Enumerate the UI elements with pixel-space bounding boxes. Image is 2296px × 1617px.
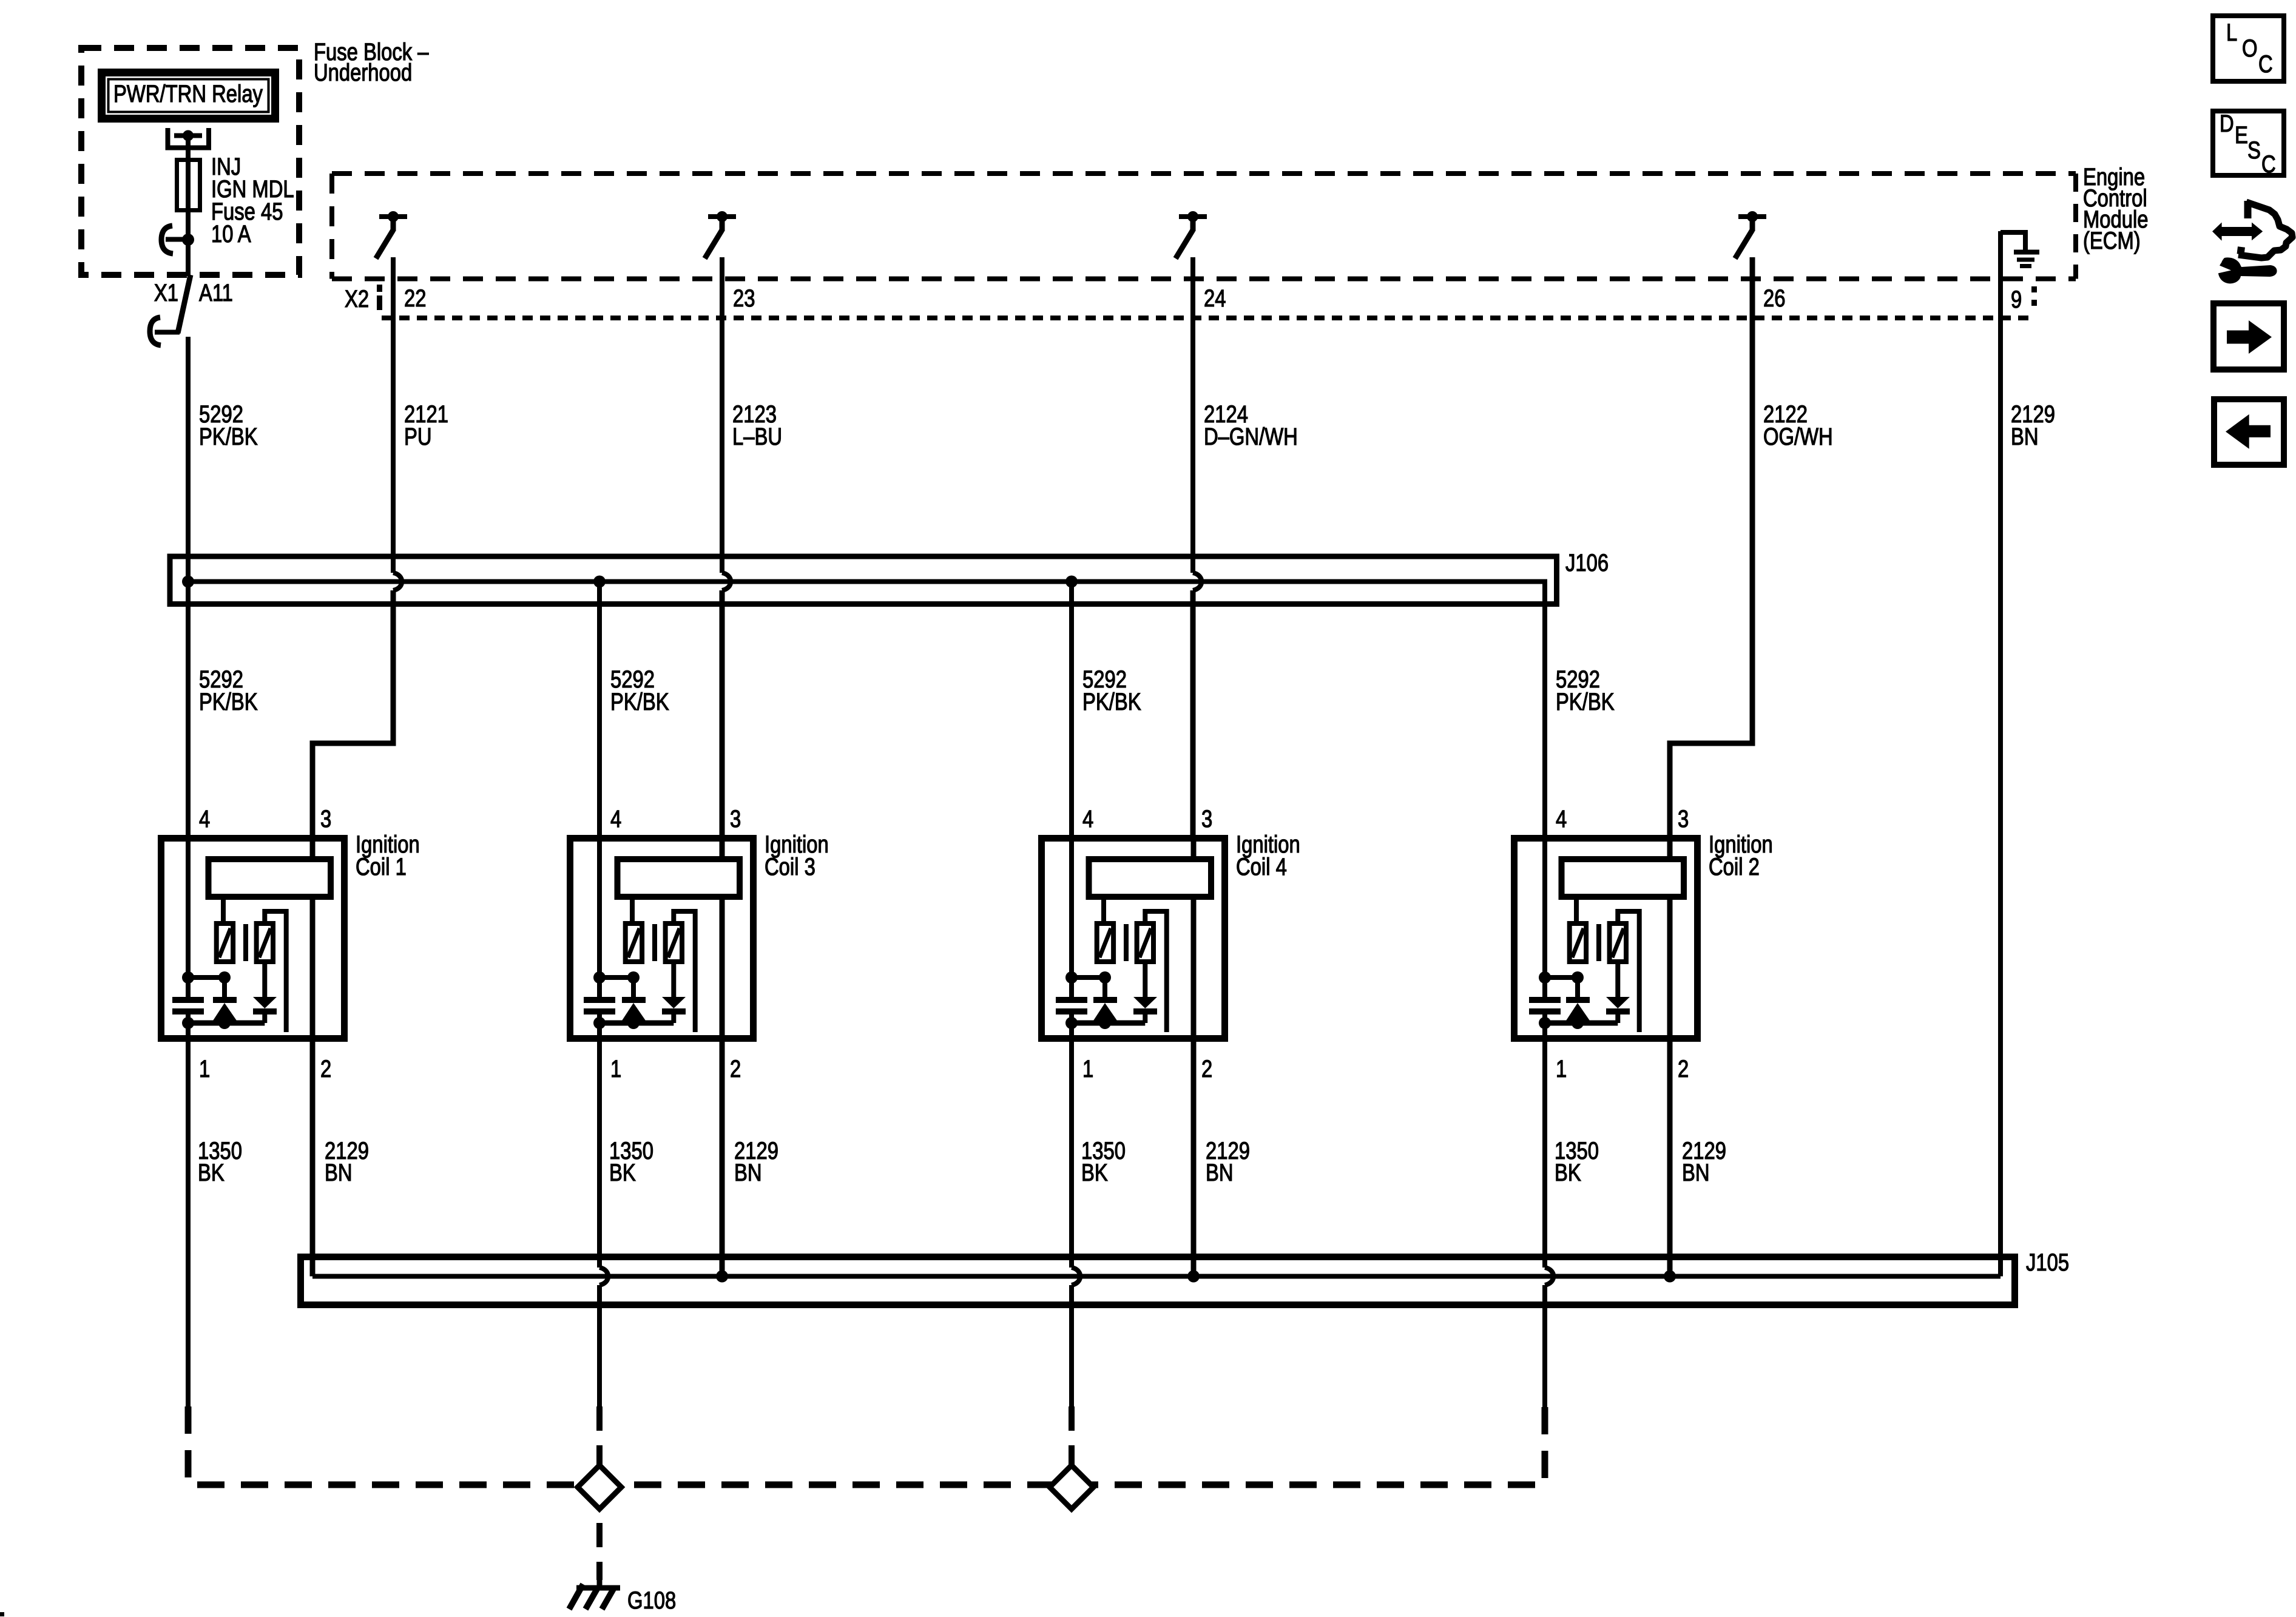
coil 3 pin 1 wire 1350 down (597, 1023, 602, 1042)
ground run dashed: coil 4 leg (1069, 1406, 1075, 1485)
svg-text:D–GN/WH: D–GN/WH (1204, 423, 1298, 450)
svg-text:D: D (2220, 110, 2234, 137)
coil 2 core bar (1596, 924, 1601, 961)
coil 3 left winding (626, 923, 642, 962)
coil 1 winding stem (221, 897, 226, 923)
wire 1350 coil 1 pin 1 down (left of J105) (186, 1042, 191, 1408)
coil 1 left winding (217, 923, 233, 962)
wire label 2129 BN coil 2 (1682, 1137, 1726, 1186)
svg-text:BK: BK (1081, 1159, 1108, 1186)
coil 1 right winding (257, 923, 273, 962)
icon DESC box (2213, 110, 2284, 178)
coil 1 junction link (182, 971, 231, 984)
coil 3 pin 2 wire 2129 down to J105 (720, 897, 725, 1277)
coil 2 primary winding box (1562, 859, 1684, 897)
svg-text:4: 4 (610, 805, 621, 832)
svg-text:Coil 2: Coil 2 (1709, 853, 1760, 880)
wire label 1350 BK coil 4 (1081, 1137, 1126, 1186)
svg-text:2: 2 (320, 1055, 331, 1082)
wire 2124 D-GN/WH pin 24 to coil 4 pin 3 (1193, 257, 1201, 838)
svg-text:23: 23 (733, 285, 755, 312)
coil 1 core bar (243, 924, 248, 961)
fuse block box: Fuse Block - Underhood (81, 48, 299, 275)
coil 4 pin 3 internal wire (1191, 838, 1197, 859)
coil 1 pin numbers (199, 805, 331, 1082)
coil 2 pin 2 wire 2129 down to J105 (1667, 897, 1673, 1277)
svg-text:PK/BK: PK/BK (199, 423, 258, 450)
coil 1 bottom bus (182, 1017, 265, 1029)
svg-text:Coil 3: Coil 3 (765, 853, 815, 880)
coil 3 pin 3 internal wire (720, 838, 725, 859)
svg-text:E: E (2235, 121, 2248, 149)
connector X1 pin A11 (in-line connector symbol) (150, 275, 191, 345)
svg-text:3: 3 (1201, 805, 1212, 832)
svg-text:L–BU: L–BU (732, 423, 782, 450)
svg-text:2: 2 (1201, 1055, 1212, 1082)
wire label 5292 PK/BK (1556, 666, 1615, 715)
svg-text:J105: J105 (2026, 1249, 2069, 1276)
coil 2 pin 3 internal wire (1667, 838, 1673, 859)
coil 4 junction link (1065, 971, 1111, 984)
coil 3 diode (down) (662, 962, 686, 1023)
splice pack J105 (301, 1257, 2015, 1305)
page artifact dot bottom-left (0, 1612, 4, 1616)
coil 2 pin numbers (1556, 805, 1689, 1082)
wire label 1350 BK coil 1 (198, 1137, 242, 1186)
svg-text:PK/BK: PK/BK (610, 688, 669, 715)
svg-text:Coil 4: Coil 4 (1236, 853, 1287, 880)
ECM box: Engine Control Module dashed outline (332, 174, 2076, 279)
coil 4 capacitor (1056, 977, 1087, 1023)
wire 2129 BN from ECM pin 9 down to J105 (1998, 231, 2003, 1277)
fuse block label (314, 38, 429, 86)
svg-text:1: 1 (610, 1055, 621, 1082)
wire 2123 L-BU pin 23 to coil 3 pin 3 (722, 257, 731, 838)
coil 3 primary winding box (618, 859, 740, 897)
wire label 5292 PK/BK (1082, 666, 1141, 715)
svg-text:26: 26 (1763, 285, 1785, 312)
wire 1350 coil 2 pin 1 crossing J105 (1545, 1042, 1553, 1411)
coil 4 diode (down) (1133, 962, 1157, 1023)
svg-text:BK: BK (609, 1159, 636, 1186)
svg-text:G108: G108 (627, 1587, 676, 1614)
wire label 2129 BN coil 4 (1206, 1137, 1250, 1186)
coil 3 winding stem (630, 897, 635, 923)
ECM label (2083, 163, 2149, 254)
coil 3 pin numbers (610, 805, 741, 1082)
ground run dashed: coil 1 leg (188, 1406, 1545, 1485)
svg-text:L: L (2226, 19, 2237, 46)
label X2 (345, 285, 369, 312)
relay output cavity (fuse block terminal) (168, 128, 209, 148)
ignition coil 4: case (1042, 839, 1225, 1039)
svg-text:(ECM): (ECM) (2083, 227, 2141, 254)
coil 4 pin 2 wire 2129 down to J105 (1191, 897, 1197, 1277)
coil 4 secondary output hook (1145, 911, 1166, 1032)
svg-text:PU: PU (404, 423, 432, 450)
svg-text:A11: A11 (199, 279, 233, 306)
svg-text:2: 2 (730, 1055, 741, 1082)
svg-text:3: 3 (1678, 805, 1689, 832)
wire junction to fuse block edge (186, 240, 191, 276)
coil 4 primary winding box (1089, 859, 1212, 897)
wire label 1350 BK coil 3 (609, 1137, 653, 1186)
coil 1 diode (down) (253, 962, 277, 1023)
ECM driver switch pin 23 (705, 211, 737, 258)
wire 5292 J106 to coil 3 pin 4 (597, 582, 602, 978)
coil 2 secondary output hook (1618, 911, 1639, 1032)
svg-text:C: C (2261, 150, 2276, 178)
svg-text:PK/BK: PK/BK (1556, 688, 1615, 715)
coil 3 bottom bus (593, 1017, 674, 1029)
svg-text:S: S (2247, 137, 2261, 164)
coil 1 pin 1 wire 1350 down (186, 1023, 191, 1042)
svg-text:1: 1 (1556, 1055, 1567, 1082)
svg-text:PK/BK: PK/BK (199, 688, 258, 715)
pin number 26 (1763, 285, 1785, 312)
svg-text:4: 4 (1082, 805, 1093, 832)
ECM driver switch pin 26 (1735, 211, 1767, 258)
svg-text:10 A: 10 A (211, 220, 251, 248)
ground G108 (569, 1576, 620, 1609)
splice diamond S1 (578, 1465, 621, 1509)
svg-text:24: 24 (1204, 285, 1226, 312)
pin number 9 (2011, 286, 2022, 313)
svg-text:BN: BN (325, 1159, 353, 1186)
wire label 2129 BN coil 3 (734, 1137, 778, 1186)
icon next arrow box (2213, 303, 2284, 370)
svg-text:X2: X2 (345, 285, 369, 312)
svg-text:3: 3 (730, 805, 741, 832)
svg-text:PWR/TRN Relay: PWR/TRN Relay (113, 80, 263, 107)
connector labels X1 / A11 (154, 279, 233, 306)
wire 5292 PK/BK relay feed down to J106 and coil 1 pin 4 (186, 337, 191, 977)
ECM connector X2 tick (377, 285, 382, 310)
wire 2122 OG/WH pin 26 to coil 2 pin 3 (1670, 257, 1752, 838)
svg-text:BK: BK (198, 1159, 225, 1186)
svg-text:1: 1 (1082, 1055, 1093, 1082)
relay K: PWR/TRN Relay (102, 73, 275, 119)
coil 4 core bar (1124, 924, 1129, 961)
coil 4 bottom bus (1065, 1017, 1145, 1029)
ignition coil 3: case (570, 839, 754, 1039)
coil 2 pin 4 internal wire (1542, 838, 1547, 977)
coil 3 core bar (652, 924, 657, 961)
svg-text:BN: BN (734, 1159, 762, 1186)
coil 2 pin 1 wire 1350 down (1542, 1023, 1547, 1042)
svg-text:OG/WH: OG/WH (1763, 423, 1833, 450)
coil 2 diode (down) (1606, 962, 1630, 1023)
fuse label (211, 153, 294, 248)
pin number 24 (1204, 285, 1226, 312)
svg-text:BK: BK (1555, 1159, 1581, 1186)
fuse F45: INJ IGN MDL Fuse 45 10A (177, 160, 200, 211)
svg-text:Coil 1: Coil 1 (356, 853, 407, 880)
coil 2 capacitor (1529, 977, 1561, 1023)
ECM connector row dotted line (382, 316, 2031, 320)
wire 1350 coil 3 pin 1 crossing J105 (599, 1042, 608, 1408)
coil 4 pin 4 internal wire (1069, 838, 1074, 977)
svg-text:J106: J106 (1565, 549, 1609, 576)
coil 4 zener diode (up) (1093, 977, 1117, 1023)
wire label 2121 PU (404, 400, 448, 450)
ground run dashed: coil 3 leg to G108 (596, 1406, 603, 1580)
coil 4 pin numbers (1082, 805, 1212, 1082)
wire 2121 PU pin 22 to coil 1 pin 3 (312, 257, 402, 838)
icon back arrow box (2214, 399, 2284, 465)
wire label 5292 PK/BK (199, 666, 258, 715)
ignition coil 1: case (161, 839, 345, 1039)
coil 2 zener diode (up) (1566, 977, 1590, 1023)
svg-text:3: 3 (320, 805, 331, 832)
coil 4 pin 1 wire 1350 down (1069, 1023, 1074, 1042)
wire label 2129 BN (pin 9) (2011, 400, 2055, 450)
label G108 (627, 1587, 676, 1614)
svg-text:22: 22 (404, 285, 426, 312)
wire 1350 coil 4 pin 1 crossing J105 (1072, 1042, 1080, 1408)
wire 5292 J106 right end to coil 2 pin 4 (1542, 604, 1547, 977)
icon LOC box (2213, 16, 2284, 81)
coil 3 right winding (666, 923, 682, 962)
wire label 1350 BK coil 2 (1555, 1137, 1599, 1186)
svg-text:X1: X1 (154, 279, 178, 306)
label J105 (2026, 1249, 2069, 1276)
ignition coil 2: case (1514, 839, 1698, 1039)
wire label 5292 PK/BK (610, 666, 669, 715)
coil 3 secondary output hook (674, 911, 695, 1032)
splice pack J106 (170, 556, 1557, 604)
icon drivetrain/wrench (2212, 201, 2292, 283)
label J106 (1565, 549, 1609, 576)
coil 1 pin 2 wire 2129 down to J105 (310, 897, 316, 1277)
coil 2 junction link (1539, 971, 1584, 984)
svg-text:BN: BN (1682, 1159, 1710, 1186)
wire label 2129 BN coil 1 (325, 1137, 369, 1186)
svg-text:4: 4 (199, 805, 210, 832)
wire label 2122 OG/WH (1763, 400, 1833, 450)
coil 4 label (1236, 831, 1300, 880)
coil 3 capacitor (584, 977, 615, 1023)
coil 1 pin 4 internal wire (186, 838, 191, 977)
svg-text:Underhood: Underhood (314, 59, 412, 86)
wire label 5292 PK/BK (feed) (199, 400, 258, 450)
coil 4 left winding (1097, 923, 1113, 962)
svg-text:9: 9 (2011, 286, 2022, 313)
ECM connector right tick (2031, 286, 2037, 312)
coil 1 secondary output hook (265, 911, 286, 1032)
splice diamond S2 (1050, 1465, 1093, 1509)
svg-text:2: 2 (1678, 1055, 1689, 1082)
svg-text:BN: BN (2011, 423, 2039, 450)
coil 1 capacitor (172, 977, 204, 1023)
coil 1 zener diode (up) (213, 977, 237, 1023)
svg-text:C: C (2258, 50, 2273, 78)
svg-text:1: 1 (199, 1055, 210, 1082)
coil 1 pin 3 internal wire (310, 838, 316, 859)
pin number 23 (733, 285, 755, 312)
coil 1 label (356, 831, 420, 880)
coil 3 junction link (593, 971, 640, 984)
wire relay to fuse (186, 131, 191, 240)
svg-text:O: O (2242, 35, 2258, 62)
coil 2 label (1709, 831, 1773, 880)
ECM driver switch pin 22 (376, 211, 408, 258)
coil 2 winding stem (1574, 897, 1579, 923)
coil 1 primary winding box (209, 859, 331, 897)
wire 5292 J106 to coil 4 pin 4 (1069, 582, 1074, 978)
wire label 2124 D-GN/WH (1204, 400, 1298, 450)
wire label 2123 L-BU (732, 400, 782, 450)
svg-text:PK/BK: PK/BK (1082, 688, 1141, 715)
coil 3 zener diode (up) (622, 977, 646, 1023)
coil 2 left winding (1570, 923, 1586, 962)
ECM driver switch pin 24 (1176, 211, 1207, 258)
coil 4 right winding (1137, 923, 1153, 962)
coil 3 pin 4 internal wire (597, 838, 602, 977)
coil 2 right winding (1610, 923, 1626, 962)
fuse block internal connector clip + junction dot (161, 226, 194, 254)
coil 4 winding stem (1101, 897, 1106, 923)
coil 2 bottom bus (1539, 1017, 1618, 1029)
pin number 22 (404, 285, 426, 312)
coil 3 label (765, 831, 829, 880)
svg-text:BN: BN (1206, 1159, 1234, 1186)
ECM internal ground at pin 9 (2001, 232, 2039, 266)
svg-text:4: 4 (1556, 805, 1567, 832)
